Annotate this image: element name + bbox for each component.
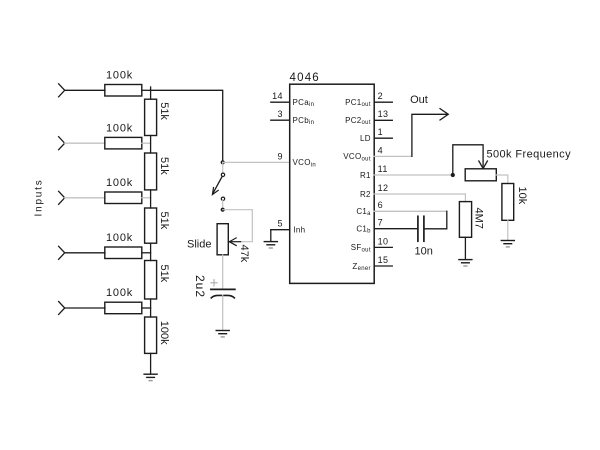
svg-text:51k: 51k bbox=[158, 102, 170, 120]
capacitor C1 2u2 bottom plate bbox=[211, 295, 234, 298]
svg-text:3: 3 bbox=[277, 109, 282, 119]
wire 4M7 to ground bbox=[464, 237, 466, 259]
resistor R6 51k bbox=[145, 99, 157, 135]
wire bbox=[142, 307, 151, 309]
op IC U1 4046 box bbox=[290, 84, 375, 283]
ground bbox=[264, 242, 277, 248]
wire pin12 to 4M7 bbox=[464, 194, 466, 202]
potentiometer 500k body bbox=[465, 169, 496, 181]
wire pot to 10k bbox=[496, 175, 508, 184]
pin 1 LD bbox=[374, 137, 392, 139]
svg-text:100k: 100k bbox=[106, 232, 133, 244]
svg-text:4M7: 4M7 bbox=[473, 208, 485, 229]
wire wiper loop bbox=[223, 210, 253, 242]
svg-text:100k: 100k bbox=[106, 287, 133, 299]
switch SW1 lever arrowhead bbox=[212, 188, 218, 195]
wire bbox=[142, 142, 151, 144]
svg-text:11: 11 bbox=[378, 164, 388, 174]
ground bbox=[216, 331, 229, 337]
resistor 4M7 bbox=[459, 202, 471, 238]
svg-text:R2: R2 bbox=[360, 190, 371, 199]
input connector J3 bbox=[59, 191, 65, 204]
capacitor C1 2u2 top plate bbox=[211, 288, 235, 290]
resistor R4 100k bbox=[105, 247, 142, 259]
pin 14 PCain bbox=[271, 101, 290, 103]
wire pin5 to ground bbox=[270, 230, 272, 242]
pin 4 VCOout bbox=[374, 155, 412, 157]
svg-text:R1: R1 bbox=[360, 171, 371, 180]
svg-text:100k: 100k bbox=[106, 177, 133, 189]
wire bbox=[142, 252, 151, 254]
input connector J2 bbox=[59, 137, 65, 150]
switch SW1 top contact bbox=[221, 173, 224, 176]
svg-text:100k: 100k bbox=[106, 122, 133, 134]
svg-text:2: 2 bbox=[378, 91, 383, 101]
wire to pin 9 bbox=[223, 161, 290, 163]
svg-text:12: 12 bbox=[378, 183, 389, 193]
pin 10 SFout bbox=[374, 246, 392, 248]
svg-text:10n: 10n bbox=[415, 246, 433, 258]
wire to ground bbox=[150, 353, 152, 374]
pin 6 C1a bbox=[374, 210, 447, 212]
potentiometer slide 47k wiper arrow bbox=[229, 238, 236, 246]
input connector J1 bbox=[59, 84, 65, 97]
wire switch to pot junction bbox=[222, 201, 224, 210]
svg-text:Inh: Inh bbox=[293, 226, 305, 235]
resistor R8 51k bbox=[145, 208, 157, 243]
svg-text:Out: Out bbox=[410, 94, 428, 106]
wire bbox=[65, 142, 105, 144]
pin 11 R1 bbox=[374, 174, 453, 176]
pin 13 PC2out bbox=[374, 119, 392, 121]
wire bbox=[65, 89, 105, 91]
resistor R7 51k bbox=[145, 153, 157, 190]
svg-text:15: 15 bbox=[378, 255, 389, 265]
svg-text:500k Frequency: 500k Frequency bbox=[487, 149, 572, 161]
input connector J5 bbox=[59, 302, 65, 315]
node ladder top tick bbox=[150, 87, 152, 90]
resistor R10 100k bbox=[145, 317, 157, 353]
wire capacitor to ground bbox=[222, 295, 224, 330]
ground bbox=[501, 241, 514, 247]
resistor R3 100k bbox=[105, 192, 142, 204]
svg-text:4: 4 bbox=[378, 145, 383, 155]
svg-text:4046: 4046 bbox=[290, 72, 320, 84]
svg-text:LD: LD bbox=[360, 134, 371, 143]
svg-text:Slide: Slide bbox=[187, 238, 211, 250]
resistor R9 51k bbox=[145, 261, 157, 300]
svg-text:100k: 100k bbox=[106, 69, 133, 81]
wire junction to switch bbox=[222, 162, 224, 173]
wire ladder segment 3 bbox=[150, 190, 152, 208]
switch SW1 bottom contact bbox=[221, 197, 224, 200]
svg-text:14: 14 bbox=[272, 91, 283, 101]
switch SW1 lever bbox=[213, 176, 222, 193]
pin 3 PCbin bbox=[271, 119, 290, 121]
wire bbox=[65, 307, 105, 309]
ground bbox=[459, 260, 472, 266]
pin 12 R2 bbox=[374, 193, 465, 195]
svg-text:7: 7 bbox=[378, 218, 383, 228]
svg-text:51k: 51k bbox=[158, 212, 170, 230]
node junction pot top bbox=[221, 208, 225, 212]
wire pin6 to capacitor bbox=[424, 211, 447, 229]
wire top rail to switch column bbox=[151, 90, 223, 162]
arrowhead 500k wiper bbox=[479, 161, 488, 168]
svg-text:2u2: 2u2 bbox=[193, 275, 207, 298]
input connector J4 bbox=[59, 246, 65, 259]
resistor R1 100k bbox=[105, 85, 142, 97]
svg-text:51k: 51k bbox=[158, 157, 170, 175]
pin 2 PC1out bbox=[374, 101, 392, 103]
wire ladder segment 2 bbox=[150, 136, 152, 154]
svg-text:100k: 100k bbox=[158, 321, 170, 345]
wire pot to capacitor bbox=[222, 255, 224, 289]
wire 10k to ground bbox=[507, 220, 509, 240]
resistor R2 100k bbox=[105, 137, 142, 149]
svg-text:6: 6 bbox=[378, 200, 383, 210]
svg-text:10k: 10k bbox=[516, 187, 528, 205]
arrowhead Out bbox=[440, 109, 448, 120]
pin 5 Inh bbox=[271, 229, 290, 231]
wire bbox=[65, 197, 105, 199]
resistor 10k bbox=[502, 184, 514, 221]
capacitor 10n plates bbox=[417, 216, 419, 241]
pin 15 Zener bbox=[374, 265, 392, 267]
svg-text:47k: 47k bbox=[238, 245, 250, 263]
wire ladder segment 4 bbox=[150, 243, 152, 260]
wire ladder segment 1 bbox=[150, 90, 152, 99]
ground bbox=[144, 374, 157, 380]
potentiometer slide 47k body bbox=[217, 224, 228, 255]
resistor R5 100k bbox=[105, 302, 142, 314]
wire bbox=[142, 197, 151, 199]
pin 7 C1b bbox=[374, 228, 418, 230]
node junction VCOin bbox=[221, 160, 225, 164]
svg-text:1: 1 bbox=[378, 127, 383, 137]
svg-text:5: 5 bbox=[277, 219, 282, 229]
svg-text:Inputs: Inputs bbox=[33, 178, 44, 216]
wire bbox=[65, 252, 105, 254]
wire ladder segment 5 bbox=[150, 299, 152, 317]
svg-text:51k: 51k bbox=[158, 265, 170, 283]
capacitor C1 2u2 plus sign bbox=[211, 280, 217, 286]
svg-text:9: 9 bbox=[277, 152, 282, 162]
svg-text:10: 10 bbox=[378, 236, 389, 246]
wire 500k wiper loop bbox=[453, 145, 483, 175]
wire Out bbox=[412, 114, 447, 156]
wire bbox=[142, 89, 151, 91]
node junction R1 bbox=[451, 173, 455, 177]
svg-text:13: 13 bbox=[378, 109, 389, 119]
